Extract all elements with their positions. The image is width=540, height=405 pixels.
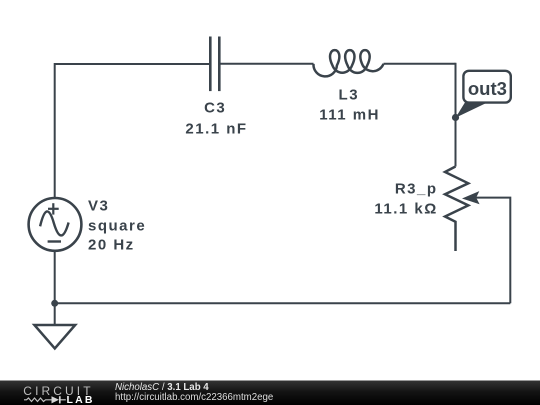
potentiometer wiper arrow <box>462 191 480 204</box>
voltage source sine wave <box>40 211 69 235</box>
potentiometer R3_p zigzag <box>445 167 468 252</box>
voltage source V3 circle <box>29 198 82 251</box>
svg-text:L3: L3 <box>339 86 360 103</box>
wire wiper to right vertical <box>476 198 510 304</box>
wire inductor to top-right corner <box>384 63 456 65</box>
CircuitLab logo resistor squiggle <box>24 398 52 402</box>
svg-text:21.1 nF: 21.1 nF <box>185 120 247 137</box>
wire cap to inductor <box>219 63 313 65</box>
wire source bottom to ground node <box>54 251 56 325</box>
wire top left horizontal <box>55 63 211 65</box>
wire out3 dot to potentiometer <box>455 118 457 167</box>
svg-text:111 mH: 111 mH <box>319 107 380 124</box>
svg-text:V3: V3 <box>88 198 109 215</box>
svg-text:out3: out3 <box>468 78 507 99</box>
inductor L3 <box>313 50 383 76</box>
CircuitLab logo diode symbol <box>52 396 60 403</box>
svg-text:NicholasC / 3.1 Lab 4: NicholasC / 3.1 Lab 4 <box>115 382 209 393</box>
svg-text:20 Hz: 20 Hz <box>88 236 135 253</box>
wire bottom horizontal <box>55 302 511 304</box>
svg-text:LAB: LAB <box>67 394 95 405</box>
node out3 flag <box>456 71 511 118</box>
node dot out3 <box>452 114 459 121</box>
wire right vertical (corner down to potentiometer) <box>455 63 457 167</box>
capacitor C3 <box>210 37 219 92</box>
svg-text:http://circuitlab.com/c22366mt: http://circuitlab.com/c22366mtm2ege <box>115 392 273 403</box>
node dot ground junction <box>51 300 58 307</box>
voltage source plus sign <box>48 203 59 214</box>
svg-text:R3_p: R3_p <box>395 181 438 198</box>
ground symbol <box>34 325 75 349</box>
svg-text:11.1 kΩ: 11.1 kΩ <box>374 201 437 218</box>
svg-text:square: square <box>88 218 146 235</box>
voltage source minus sign <box>48 240 61 242</box>
svg-text:C3: C3 <box>204 100 226 117</box>
wire left vertical (top corner to source) <box>54 63 56 198</box>
